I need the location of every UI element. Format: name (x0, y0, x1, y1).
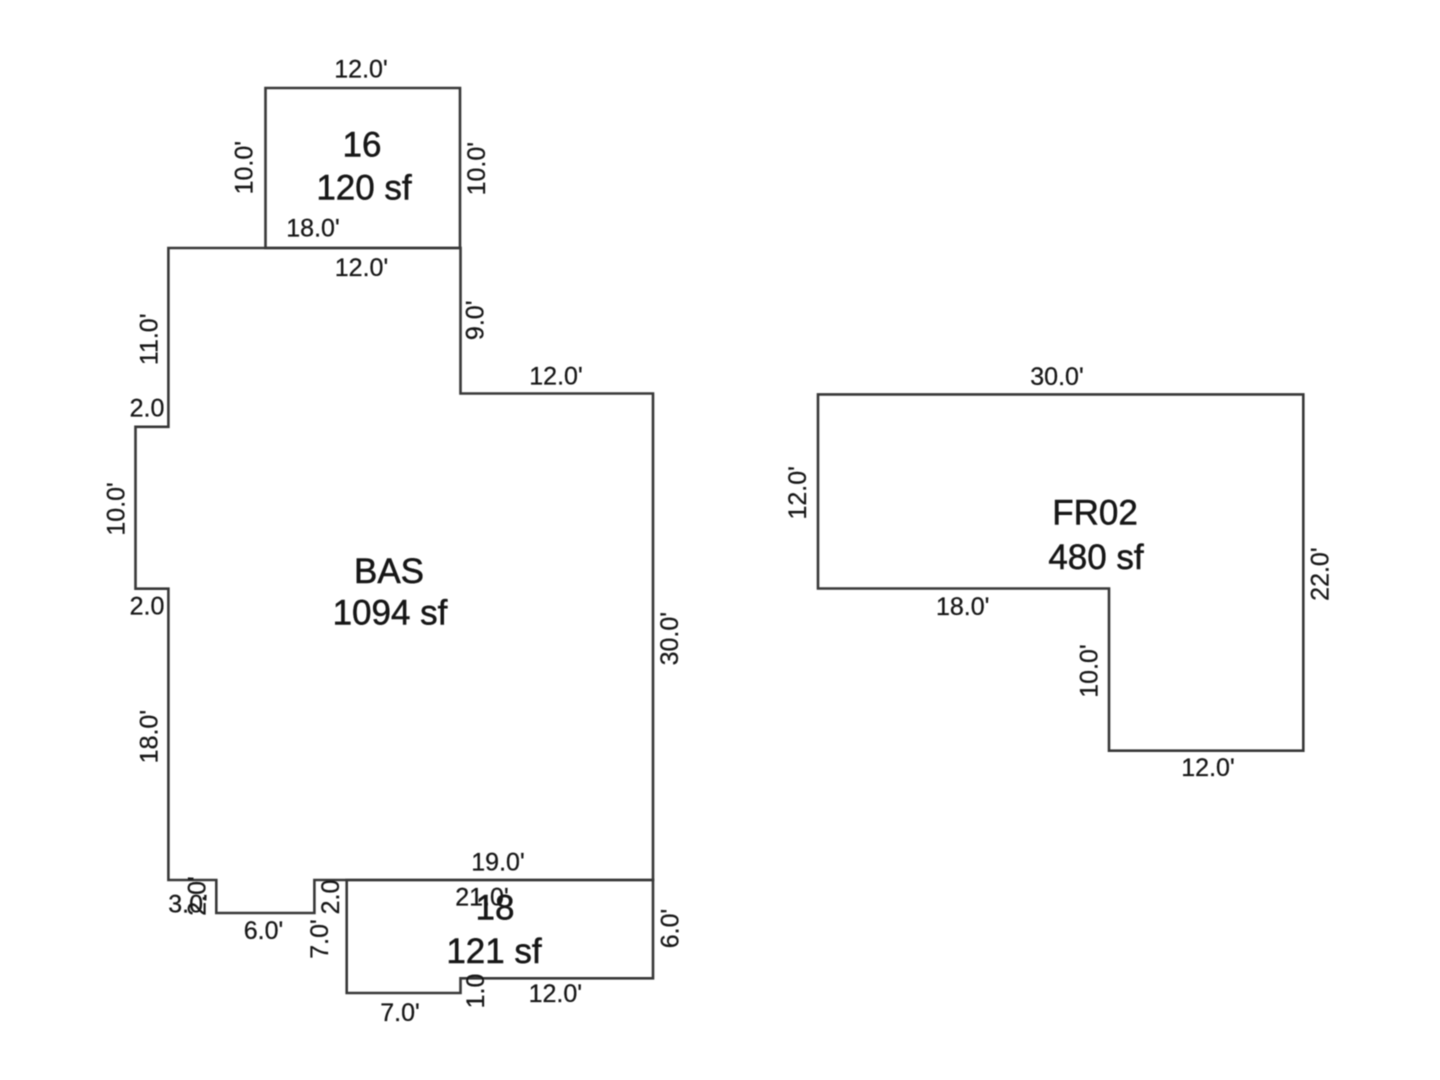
room BAS outline (136, 248, 654, 913)
svg-text:18.0': 18.0' (136, 710, 164, 763)
svg-text:12.0': 12.0' (529, 362, 582, 390)
svg-text:30.0': 30.0' (656, 612, 684, 665)
svg-text:1.0: 1.0 (462, 974, 490, 1009)
svg-text:19.0': 19.0' (471, 849, 524, 877)
svg-text:2.0: 2.0 (317, 880, 345, 915)
svg-text:10.0': 10.0' (1076, 644, 1104, 697)
svg-text:6.0': 6.0' (244, 917, 284, 945)
svg-text:12.0': 12.0' (1181, 754, 1234, 782)
svg-text:10.0': 10.0' (463, 142, 491, 195)
room FR02 outline (818, 394, 1303, 750)
svg-text:12.0': 12.0' (335, 254, 388, 282)
svg-text:120 sf: 120 sf (316, 169, 412, 208)
svg-text:18.0': 18.0' (286, 214, 339, 242)
svg-text:10.0': 10.0' (231, 141, 259, 194)
svg-text:2.0: 2.0 (130, 592, 165, 620)
svg-text:2.0': 2.0' (184, 876, 212, 916)
svg-text:12.0': 12.0' (784, 466, 812, 519)
svg-text:BAS: BAS (354, 552, 424, 591)
svg-text:21.0': 21.0' (455, 884, 508, 912)
svg-text:9.0': 9.0' (462, 301, 490, 341)
svg-text:121 sf: 121 sf (446, 932, 542, 971)
svg-text:12.0': 12.0' (334, 55, 387, 83)
svg-text:11.0': 11.0' (136, 314, 164, 366)
svg-text:6.0': 6.0' (657, 909, 685, 949)
svg-text:7.0': 7.0' (306, 919, 334, 959)
svg-text:10.0': 10.0' (103, 482, 131, 535)
svg-text:2.0: 2.0 (130, 395, 165, 423)
room 16 outline (266, 88, 461, 248)
svg-text:7.0': 7.0' (380, 999, 420, 1027)
svg-text:FR02: FR02 (1052, 494, 1138, 533)
svg-text:1094 sf: 1094 sf (333, 594, 448, 633)
room 18 outline (347, 880, 653, 993)
svg-text:12.0': 12.0' (529, 980, 582, 1008)
svg-text:480 sf: 480 sf (1048, 538, 1144, 577)
svg-text:30.0': 30.0' (1030, 363, 1083, 391)
svg-text:16: 16 (343, 125, 382, 164)
svg-text:18.0': 18.0' (936, 593, 989, 621)
svg-text:22.0': 22.0' (1307, 547, 1335, 600)
